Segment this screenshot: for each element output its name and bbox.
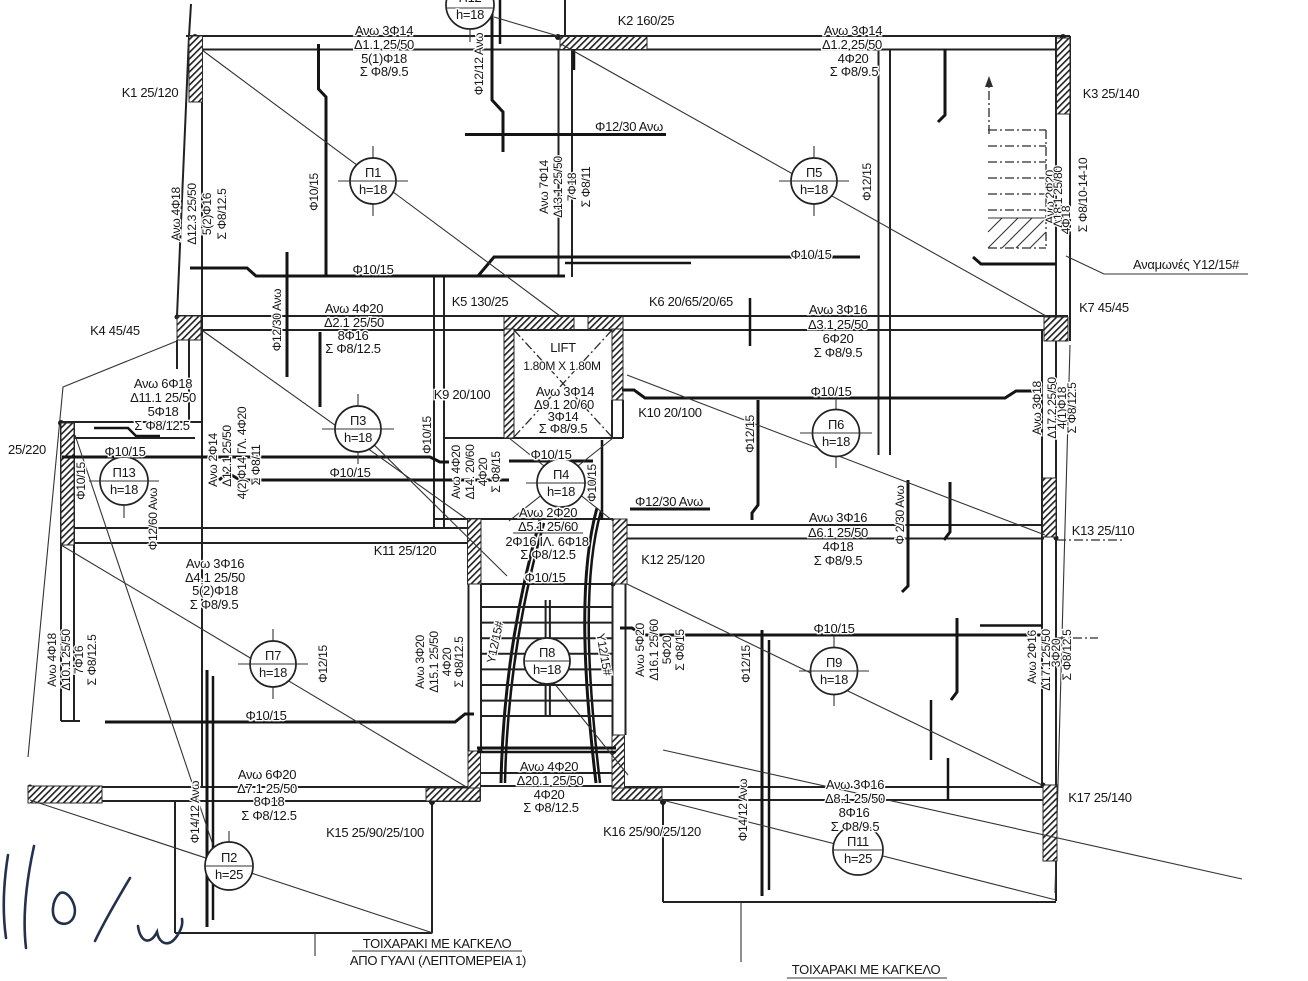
svg-text:Φ10/15: Φ10/15 [585, 463, 599, 501]
diagonal annex steep [75, 435, 213, 845]
svg-text:Σ Φ8/9.5: Σ Φ8/9.5 [831, 819, 880, 834]
svg-text:h=18: h=18 [800, 182, 828, 197]
svg-text:Φ10/15: Φ10/15 [245, 708, 286, 723]
svg-text:Ανω 2Φ16: Ανω 2Φ16 [1025, 630, 1039, 684]
diagonal slab P5 [561, 44, 1046, 316]
slab mark P1 [338, 146, 408, 216]
P11 box bottom edge [663, 901, 1056, 903]
svg-text:Δ8.1 25/50: Δ8.1 25/50 [825, 791, 885, 806]
svg-text:Π7: Π7 [265, 648, 281, 663]
handwritten mark bottom left [4, 846, 182, 948]
svg-text:Ανω 2Φ14: Ανω 2Φ14 [206, 433, 220, 487]
vertical bar P5 right short [938, 49, 945, 122]
stirrup tick row2 [749, 298, 752, 346]
svg-text:Φ12/30 Ανω: Φ12/30 Ανω [595, 119, 663, 134]
svg-text:h=18: h=18 [820, 672, 848, 687]
column K4 45/45 [177, 316, 201, 340]
beam D20.1 bottom line [481, 785, 613, 787]
beam top row outer line [186, 35, 1070, 37]
P2 box left edge [174, 802, 176, 933]
svg-text:K9 20/100: K9 20/100 [434, 387, 491, 402]
beam row2 top line [177, 315, 1068, 317]
column K13 25/110 [1043, 478, 1057, 537]
leader toixaraki left [314, 933, 316, 956]
svg-text:Φ14/12 Ανω: Φ14/12 Ανω [188, 781, 202, 843]
svg-text:Σ Φ8/15: Σ Φ8/15 [489, 451, 503, 493]
svg-text:Δ5.1 25/60: Δ5.1 25/60 [518, 519, 578, 534]
vertical bar P4 right [601, 440, 604, 520]
svg-text:h=18: h=18 [344, 430, 372, 445]
svg-text:Φ12/15: Φ12/15 [743, 414, 757, 452]
column K11 25/120 [468, 519, 482, 584]
svg-text:Φ12/15: Φ12/15 [860, 162, 874, 200]
diagonal long bottom right [663, 750, 1242, 879]
svg-text:Φ10/15: Φ10/15 [329, 465, 370, 480]
diagonal slab P9 [627, 584, 1042, 785]
svg-text:Φ 2/30 Ανω: Φ 2/30 Ανω [893, 485, 907, 544]
svg-text:1.80Μ X 1.80Μ: 1.80Μ X 1.80Μ [523, 359, 601, 373]
column K15 vertical leg [468, 751, 481, 801]
P2 box bottom edge [175, 932, 432, 934]
svg-text:Ανω 4Φ18: Ανω 4Φ18 [45, 633, 59, 687]
vertical bar F12/12 at P12 [492, 0, 503, 152]
lift bottom edge [445, 437, 623, 439]
svg-text:Σ Φ8/12.5: Σ Φ8/12.5 [452, 636, 466, 688]
slab mark P4 [526, 459, 596, 507]
svg-text:Π12: Π12 [459, 0, 482, 5]
svg-text:5Φ20: 5Φ20 [660, 635, 674, 664]
diagonal slab P1 [202, 50, 560, 316]
slab mark P11 [833, 825, 883, 875]
vertical bar F12/30 P6 [902, 480, 908, 592]
rebar row P3 lower [219, 473, 509, 480]
svg-text:K10 20/100: K10 20/100 [638, 405, 702, 420]
svg-text:K7 45/45: K7 45/45 [1079, 300, 1129, 315]
slab mark P7 [238, 629, 308, 699]
svg-text:Ανω 3Φ14: Ανω 3Φ14 [824, 23, 882, 38]
svg-text:K2 160/25: K2 160/25 [618, 13, 675, 28]
rebar row P5 second segment [565, 262, 691, 265]
svg-text:h=18: h=18 [359, 182, 387, 197]
svg-text:7Φ18: 7Φ18 [565, 172, 579, 201]
beam band K11-K12 top line [434, 518, 613, 520]
lift wall left [504, 329, 514, 438]
svg-text:5(2)Φ18: 5(2)Φ18 [192, 583, 238, 598]
stair Y-bar right [585, 508, 597, 783]
svg-text:4Φ18: 4Φ18 [1059, 205, 1073, 234]
rebar pair stair bottom [477, 747, 616, 750]
svg-text:Φ10/15: Φ10/15 [813, 621, 854, 636]
vertical bar P6 right short [944, 482, 950, 540]
diagonal slab P11 [662, 800, 1056, 900]
svg-text:Ανω 3Φ16: Ανω 3Φ16 [186, 556, 244, 571]
rotated labels [45, 33, 1090, 843]
svg-text:K1 25/120: K1 25/120 [122, 85, 179, 100]
svg-text:K11 25/120: K11 25/120 [374, 543, 437, 558]
svg-text:Δ15.1 25/50: Δ15.1 25/50 [427, 631, 441, 693]
svg-text:Ανω 4Φ18: Ανω 4Φ18 [169, 187, 183, 241]
svg-text:Σ Φ8/12.5: Σ Φ8/12.5 [325, 341, 381, 356]
vertical bar P6 left [752, 400, 758, 520]
svg-text:h=18: h=18 [456, 7, 484, 22]
column K3 25/140 [1057, 38, 1071, 114]
svg-text:4Φ18: 4Φ18 [823, 539, 854, 554]
svg-text:Σ Φ8/9.5: Σ Φ8/9.5 [814, 553, 863, 568]
svg-text:Σ Φ8/12.5: Σ Φ8/12.5 [134, 418, 190, 433]
property line right slant [1055, 345, 1070, 893]
staircase ramp hatch [988, 218, 1046, 248]
rebar row P1 [190, 268, 565, 276]
svg-text:Ανω 3Φ16: Ανω 3Φ16 [826, 777, 884, 792]
svg-text:Δ1.2 25/50: Δ1.2 25/50 [822, 37, 882, 52]
svg-text:Ανω 4Φ20: Ανω 4Φ20 [520, 759, 578, 774]
lift interior dash-dot X [514, 330, 612, 437]
slab mark P2 [205, 831, 253, 890]
wall right outer line [1069, 36, 1071, 341]
column K17 25/140 [1043, 785, 1057, 861]
diagonal slab P7 [61, 545, 468, 788]
annex parapet wall left line [60, 423, 62, 721]
svg-text:Σ Φ8/9.5: Σ Φ8/9.5 [814, 345, 863, 360]
wall K14 bottom left [28, 786, 102, 803]
svg-text:Ανω 4Φ20: Ανω 4Φ20 [325, 301, 383, 316]
column K5 130/25 [504, 317, 574, 330]
svg-text:Π6: Π6 [828, 417, 844, 432]
svg-text:K4 45/45: K4 45/45 [90, 323, 140, 338]
svg-text:Δ12.3 25/50: Δ12.3 25/50 [185, 183, 199, 245]
beam row3 left bottom line [61, 542, 468, 544]
svg-text:6Φ20: 6Φ20 [823, 331, 854, 346]
diagonal stair P8 [554, 683, 628, 775]
svg-text:Φ12/60 Ανω: Φ12/60 Ανω [146, 488, 160, 550]
svg-text:Φ10/15: Φ10/15 [524, 570, 565, 585]
svg-text:Φ10/15: Φ10/15 [810, 384, 851, 399]
svg-text:4Φ20: 4Φ20 [476, 457, 490, 486]
svg-text:Σ Φ8/9.5: Σ Φ8/9.5 [190, 597, 239, 612]
leader anamones [1066, 256, 1248, 274]
center stair middle stringer [545, 600, 547, 716]
vertical bar P9 right [951, 618, 957, 700]
svg-text:K6 20/65/20/65: K6 20/65/20/65 [649, 294, 733, 309]
svg-text:Ανω 5Φ20: Ανω 5Φ20 [633, 623, 647, 677]
beam bottom row top line right [613, 786, 1056, 788]
svg-text:Φ12/30 Ανω: Φ12/30 Ανω [270, 289, 284, 351]
stairwell left wall lines [468, 584, 470, 751]
svg-text:Π4: Π4 [553, 467, 569, 482]
parapet bottom hook [61, 720, 80, 722]
wall right lower inner [1041, 330, 1043, 785]
svg-text:Φ10/15: Φ10/15 [530, 447, 571, 462]
svg-text:Π1: Π1 [365, 165, 381, 180]
lift wall right K10 [612, 329, 623, 400]
svg-text:K3 25/140: K3 25/140 [1083, 86, 1140, 101]
svg-text:Π9: Π9 [826, 655, 842, 670]
beam band K11-K12 bottom line [480, 583, 613, 585]
beam D13.1 right line [571, 49, 573, 277]
slab mark P5 [779, 146, 849, 216]
svg-text:h=18: h=18 [110, 482, 138, 497]
svg-text:Σ Φ8/12.5: Σ Φ8/12.5 [85, 634, 99, 686]
svg-text:Σ Φ8/11: Σ Φ8/11 [579, 166, 593, 207]
vertical bar below row2 [319, 332, 322, 407]
column K2 160/25 [560, 37, 647, 50]
underline D5.1 [513, 532, 583, 534]
svg-text:Φ10/15: Φ10/15 [307, 172, 321, 210]
rebar F12/30 top middle [465, 133, 666, 136]
svg-text:Φ10/15: Φ10/15 [74, 461, 88, 499]
diagonal slab P3 [203, 331, 468, 520]
svg-text:Σ Φ8/9.5: Σ Φ8/9.5 [360, 64, 409, 79]
beam bottom row bottom line left [28, 800, 480, 802]
rebar row below lift [509, 460, 593, 463]
staircase direction arrow [988, 80, 990, 134]
slab mark P8 [524, 638, 570, 684]
rebar annex top short [94, 428, 160, 436]
svg-text:Φ12/12 Ανω: Φ12/12 Ανω [472, 33, 486, 95]
svg-text:Π8: Π8 [539, 645, 555, 660]
beam D20.1 top line [481, 772, 613, 774]
svg-text:K17 25/140: K17 25/140 [1068, 790, 1132, 805]
svg-text:Σ Φ8/12.5: Σ Φ8/12.5 [520, 547, 576, 562]
svg-text:Φ12/30 Ανω: Φ12/30 Ανω [635, 494, 703, 509]
beam bottom row bottom line right [613, 799, 1043, 801]
leader toixaraki right [740, 902, 742, 962]
svg-text:K15 25/90/25/100: K15 25/90/25/100 [326, 825, 424, 840]
wall stub below K4 [176, 340, 178, 369]
svg-text:Σ Φ8/11: Σ Φ8/11 [249, 444, 263, 485]
annex parapet wall right line [73, 423, 75, 721]
wall K9 left line [433, 276, 435, 528]
lift right wall lines below hatch [611, 400, 613, 438]
beam D6.1 top line [627, 524, 1050, 526]
wall left outer slant K1-K4 [189, 4, 191, 36]
diagonal X slab P4 [509, 438, 613, 521]
svg-text:8Φ16: 8Φ16 [839, 805, 870, 820]
annex top beam inner [75, 437, 195, 439]
svg-text:Ανω 3Φ16: Ανω 3Φ16 [809, 510, 867, 525]
svg-text:Δ6.1 25/50: Δ6.1 25/50 [808, 525, 868, 540]
svg-text:Φ10/15: Φ10/15 [104, 444, 145, 459]
annex parapet wall 25/220 [61, 423, 74, 545]
lift wall top piece [588, 317, 623, 330]
rebar row P5 left segment [478, 257, 860, 276]
wall face below K4 [188, 340, 190, 422]
vertical bar pair P2 F14/12 [206, 670, 209, 927]
svg-text:h=18: h=18 [259, 665, 287, 680]
wall right inner line upper [1055, 36, 1057, 317]
svg-text:Ανω 3Φ16: Ανω 3Φ16 [809, 302, 867, 317]
svg-text:Σ Φ8/9.5: Σ Φ8/9.5 [830, 64, 879, 79]
svg-text:Ανω 4Φ20: Ανω 4Φ20 [449, 445, 463, 499]
rebar row P6 [622, 390, 1034, 398]
svg-text:Ανω 6Φ20: Ανω 6Φ20 [238, 767, 296, 782]
svg-text:Ανω 6Φ18: Ανω 6Φ18 [134, 376, 192, 391]
svg-text:Ανω 3Φ20: Ανω 3Φ20 [413, 635, 427, 689]
svg-text:8Φ18: 8Φ18 [254, 794, 285, 809]
diagonal slab P12 [494, 17, 558, 36]
slab mark P13 [89, 457, 159, 518]
vertical bar near K16 [930, 700, 933, 760]
svg-text:ΑΠΟ ΓΥΑΛΙ (ΛΕΠΤΟΜΕΡΕΙΑ 1): ΑΠΟ ΓΥΑΛΙ (ΛΕΠΤΟΜΕΡΕΙΑ 1) [350, 953, 526, 968]
rebar row P9 [620, 628, 1042, 635]
svg-text:7Φ16: 7Φ16 [72, 645, 86, 674]
beam top row inner line [202, 49, 1056, 51]
slab mark P9 [799, 636, 869, 706]
vertical bar F12/30 P1-P3 [286, 252, 289, 377]
svg-text:Π11: Π11 [847, 834, 869, 849]
svg-text:K16 25/90/25/120: K16 25/90/25/120 [603, 824, 701, 839]
rebar row P5 right segment [973, 257, 1056, 264]
svg-text:Δ16.1 25/60: Δ16.1 25/60 [647, 619, 661, 681]
svg-text:Σ Φ8/15: Σ Φ8/15 [673, 629, 687, 671]
wall left inner line [201, 36, 203, 788]
stairwell right wall lines [612, 584, 614, 735]
dashdot K13 [1057, 539, 1124, 541]
svg-text:h=18: h=18 [547, 484, 575, 499]
svg-text:Δ10.1 25/50: Δ10.1 25/50 [59, 629, 73, 691]
rebar row annex-P3 [62, 457, 449, 462]
beam D6.1 bottom line [627, 538, 1044, 540]
beam row3 left top line [61, 527, 468, 529]
vertical bar F10/15 P1 [319, 44, 327, 276]
svg-text:Αναμωνές Y12/15#: Αναμωνές Y12/15# [1133, 257, 1240, 272]
svg-text:Δ11.1 25/50: Δ11.1 25/50 [130, 390, 196, 405]
column K16 horizontal leg [612, 788, 662, 800]
svg-text:LIFT: LIFT [550, 340, 576, 355]
P2 box right edge [431, 801, 433, 933]
svg-text:ΤΟΙΧΑΡΑΚΙ ΜΕ ΚΑΓΚΕΛΟ: ΤΟΙΧΑΡΑΚΙ ΜΕ ΚΑΓΚΕΛΟ [363, 936, 512, 951]
wall pair P5-P6 divider [878, 49, 880, 455]
svg-text:Δ3.1 25/50: Δ3.1 25/50 [808, 317, 868, 332]
slab mark P6 [800, 398, 872, 468]
slab edge above top beam [564, 0, 566, 36]
column K7 45/45 [1044, 317, 1068, 341]
slab mark P12 [446, 0, 494, 42]
svg-text:Δ1.1 25/50: Δ1.1 25/50 [354, 37, 414, 52]
svg-text:h=18: h=18 [822, 434, 850, 449]
svg-text:Φ14/12 Ανω: Φ14/12 Ανω [736, 779, 750, 841]
rebar row P7 [105, 714, 474, 722]
svg-text:ΤΟΙΧΑΡΑΚΙ ΜΕ ΚΑΓΚΕΛΟ: ΤΟΙΧΑΡΑΚΙ ΜΕ ΚΑΓΚΕΛΟ [792, 962, 941, 977]
svg-text:5Φ18: 5Φ18 [148, 404, 179, 419]
column K15 horizontal leg [426, 788, 480, 801]
svg-text:Σ Φ8/10-14-10: Σ Φ8/10-14-10 [1076, 157, 1090, 232]
svg-text:Ανω 3Φ18: Ανω 3Φ18 [1030, 381, 1044, 435]
svg-text:Σ Φ8/12.5: Σ Φ8/12.5 [215, 188, 229, 240]
wall right lower outer [1055, 330, 1057, 901]
svg-text:Ανω 3Φ14: Ανω 3Φ14 [355, 23, 413, 38]
P11 box left edge [662, 800, 664, 902]
svg-text:5(2)Φ16: 5(2)Φ16 [200, 192, 214, 235]
diagonal slab P6 [627, 375, 1045, 535]
svg-text:K5 130/25: K5 130/25 [452, 294, 509, 309]
diagonal slab P3 to stair corner [358, 429, 507, 576]
svg-text:Σ Φ8/9.5: Σ Φ8/9.5 [539, 421, 588, 436]
wall K9 right line [443, 276, 445, 528]
svg-text:h=25: h=25 [844, 851, 872, 866]
slab mark P3 [322, 394, 394, 464]
svg-text:Δ13.1 25/50: Δ13.1 25/50 [551, 156, 565, 218]
svg-text:Φ10/15: Φ10/15 [352, 262, 393, 277]
rebar F12/30 P6 underlined [630, 508, 710, 511]
vertical bar pair P9 [761, 630, 764, 896]
svg-text:Ανω 7Φ14: Ανω 7Φ14 [537, 160, 551, 214]
svg-text:Δ12.1 25/50: Δ12.1 25/50 [220, 425, 234, 487]
beam D13.1 left line [558, 49, 560, 277]
svg-text:Σ Φ8/12.5: Σ Φ8/12.5 [523, 800, 579, 815]
svg-text:Π5: Π5 [806, 165, 822, 180]
svg-text:Σ Φ8/12.5: Σ Φ8/12.5 [1065, 382, 1079, 434]
svg-text:4(2)Φ14 ΓΛ. 4Φ20: 4(2)Φ14 ΓΛ. 4Φ20 [235, 406, 249, 499]
svg-text:h=18: h=18 [533, 662, 561, 677]
beam bottom row top line left [28, 786, 480, 788]
annex top beam outer [61, 421, 202, 423]
svg-text:Δ20.1 25/50: Δ20.1 25/50 [517, 773, 584, 788]
svg-text:25/220: 25/220 [8, 442, 46, 457]
column K16 vertical leg [612, 735, 625, 800]
svg-text:h=25: h=25 [215, 867, 243, 882]
svg-text:Σ Φ8/12.5: Σ Φ8/12.5 [1060, 629, 1074, 681]
svg-text:Π2: Π2 [221, 850, 237, 865]
svg-text:Π13: Π13 [113, 465, 136, 480]
svg-text:Π3: Π3 [350, 413, 366, 428]
center stair steps [481, 607, 613, 716]
column K12 25/120 [613, 519, 627, 584]
svg-text:Φ12/15: Φ12/15 [316, 644, 330, 682]
svg-text:Φ10/15: Φ10/15 [420, 415, 434, 453]
svg-text:Σ Φ8/12.5: Σ Φ8/12.5 [241, 808, 297, 823]
svg-text:K13 25/110: K13 25/110 [1072, 523, 1135, 538]
vertical bar K2 below [573, 49, 576, 70]
column K1 25/120 [189, 36, 203, 102]
svg-text:Δ14. 20/60: Δ14. 20/60 [463, 444, 477, 500]
svg-text:Φ12/15: Φ12/15 [739, 644, 753, 682]
diagonal slab P2 [30, 800, 433, 933]
svg-text:Φ10/15: Φ10/15 [790, 247, 831, 262]
svg-text:Ανω 2Φ20: Ανω 2Φ20 [519, 505, 577, 520]
svg-text:K12 25/120: K12 25/120 [641, 552, 705, 567]
property line annex slant [28, 341, 177, 757]
beam row2 bottom line [177, 329, 1056, 331]
stair Y-bar left [501, 520, 540, 783]
top right staircase steps [988, 130, 1046, 248]
